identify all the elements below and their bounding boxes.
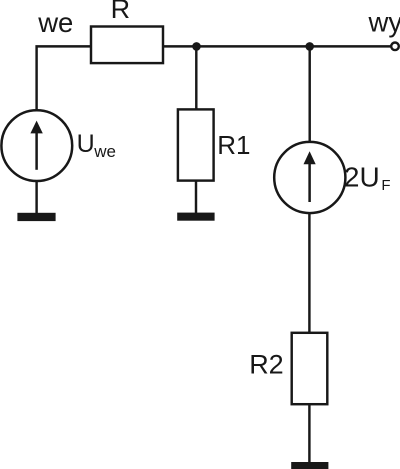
output terminal (open circle)	[391, 43, 399, 51]
wire: node A to node wy	[197, 45, 310, 47]
label wy	[368, 6, 400, 37]
resistor R2	[292, 333, 328, 404]
wire we node: vertical drop and horizontal to R	[37, 46, 91, 111]
wire: node wy down to source 2U_F	[308, 46, 310, 143]
svg-text:U: U	[77, 130, 95, 158]
label 2U_F	[344, 161, 391, 193]
wire: source 2U_F to R2	[308, 213, 310, 333]
svg-text:R2: R2	[249, 349, 284, 379]
svg-text:R: R	[111, 0, 131, 24]
source 2U_F arrow	[304, 151, 316, 202]
wire: R right lead to node A	[163, 45, 197, 47]
resistor R	[91, 27, 163, 64]
source U_we arrow	[30, 121, 42, 170]
source U_we (circle)	[1, 110, 72, 181]
wire: R2 to ground	[308, 404, 310, 462]
label R2	[249, 349, 284, 379]
svg-text:wy: wy	[368, 6, 400, 37]
wire: node A down to R1	[195, 46, 197, 110]
svg-text:R1: R1	[217, 130, 250, 160]
resistor R1	[178, 109, 214, 180]
svg-text:F: F	[381, 177, 390, 194]
svg-text:2U: 2U	[344, 161, 380, 192]
label U_we	[77, 130, 116, 161]
svg-text:we: we	[93, 142, 116, 161]
node we	[37, 7, 73, 38]
label R	[111, 0, 131, 24]
node A junction dot	[192, 42, 201, 51]
source 2U_F (circle)	[274, 142, 345, 213]
ground (under U_we)	[17, 213, 55, 221]
node wy junction dot	[305, 42, 314, 51]
wire: U_we to ground	[35, 181, 37, 213]
svg-text:we: we	[37, 7, 73, 38]
label R1	[217, 130, 250, 160]
wire: node wy to output terminal	[310, 45, 391, 47]
ground (under R1)	[177, 213, 214, 221]
wire: R1 to ground	[195, 181, 197, 214]
ground (under R2)	[291, 462, 328, 469]
